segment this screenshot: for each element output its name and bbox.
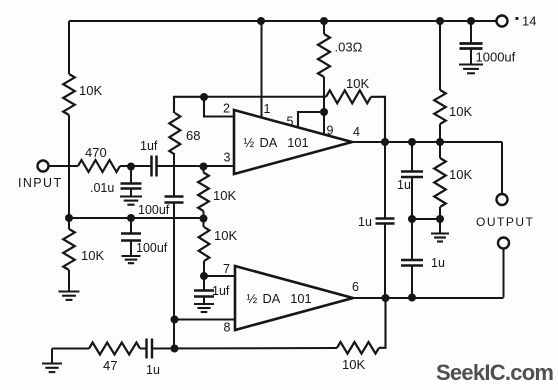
svg-text:100uf: 100uf: [138, 203, 170, 217]
wire 10K bottom to ground: [439, 219, 441, 233]
junction top rail / 1000uf branch: [467, 17, 475, 25]
wire pin 9: [323, 112, 325, 135]
junction output node C: [436, 138, 444, 146]
wire feedback to output node: [371, 97, 385, 142]
wire 1u upper lead: [411, 142, 413, 171]
ground below 10K left lower: [59, 290, 80, 292]
resistor 470: [78, 160, 120, 172]
resistor 10K upper left: [63, 74, 75, 115]
wire 1u lower to output2: [411, 266, 413, 298]
svg-text:10K: 10K: [449, 167, 472, 182]
capacitor 100uf upper: [165, 195, 184, 198]
junction bus 10K divider: [200, 215, 208, 223]
svg-text:1000uf: 1000uf: [476, 50, 516, 65]
svg-text:100uf: 100uf: [136, 241, 168, 255]
resistor 10K feedback op1: [326, 90, 371, 103]
svg-text:1uf: 1uf: [212, 284, 230, 298]
ground bottom left stub: [51, 349, 53, 364]
wire 1000uf to rail: [470, 21, 472, 43]
wire pin 7: [204, 275, 235, 277]
svg-text:470: 470: [85, 145, 107, 160]
svg-text:10K: 10K: [214, 228, 237, 243]
junction pin 8 node: [171, 316, 179, 324]
svg-text:.01u: .01u: [90, 181, 114, 195]
resistor 10K left lower: [63, 229, 75, 270]
svg-text:10K: 10K: [342, 357, 365, 372]
svg-text:4: 4: [353, 125, 360, 139]
junction pin 2 branch: [200, 93, 208, 101]
junction bus 100uf branch: [127, 214, 135, 222]
op-amp U2 half DA101: [235, 266, 353, 330]
junction 1u caps midpoint: [408, 215, 416, 223]
wire left rail middle: [68, 115, 70, 218]
wire input to 470: [48, 165, 78, 167]
wire 1uf bypass to ground: [203, 297, 205, 304]
svg-text:68: 68: [186, 128, 200, 143]
wire 1u cap to feedback 10K: [152, 347, 337, 350]
svg-text:1uf: 1uf: [140, 139, 158, 153]
ground below right 10K: [431, 232, 449, 234]
junction op2 out / feedback: [382, 294, 390, 302]
svg-text:.03Ω: .03Ω: [335, 40, 363, 55]
svg-text:1u: 1u: [358, 215, 372, 229]
svg-text:½ DA 101: ½ DA 101: [244, 135, 309, 150]
svg-text:10K: 10K: [213, 188, 236, 203]
op-amp U1 half DA101: [234, 110, 352, 174]
svg-text:INPUT: INPUT: [18, 176, 63, 190]
wire 470 to cap: [120, 165, 151, 167]
svg-text:47: 47: [103, 358, 117, 373]
ground below 100uf lower: [122, 255, 141, 257]
junction output node A: [381, 138, 389, 146]
junction right 10K bottom: [436, 215, 444, 223]
junction top rail / pin1 line: [257, 17, 265, 25]
junction input node: [127, 163, 135, 171]
wire middle rail down: [173, 203, 175, 349]
svg-text:1u: 1u: [146, 363, 160, 377]
wire 68 branch top corner: [174, 97, 204, 113]
wire .03 ohm lower lead: [323, 77, 325, 112]
terminal INPUT: [38, 161, 49, 172]
svg-text:7: 7: [223, 262, 230, 276]
wire right 10K to node: [439, 124, 441, 142]
wire 10K left lower leads: [68, 218, 70, 229]
wire 10K divider upper leads: [203, 166, 205, 173]
junction top rail / 0.3-ohm branch: [320, 17, 328, 25]
wire 1u lower lead: [411, 219, 413, 260]
svg-text:1u: 1u: [431, 256, 445, 270]
svg-text:OUTPUT: OUTPUT: [476, 215, 534, 229]
terminal +14: [497, 16, 508, 27]
wire from lower OUTPUT terminal: [503, 248, 505, 297]
resistor 10K divider lower: [199, 227, 210, 261]
svg-text:10K: 10K: [81, 248, 104, 263]
wire top supply rail: [69, 20, 497, 22]
capacitor 100uf lower stub: [130, 218, 132, 233]
capacitor 1uf series input: [150, 156, 153, 177]
capacitor .01u: [121, 182, 142, 185]
svg-text:3: 3: [224, 151, 231, 165]
resistor 47: [89, 343, 140, 355]
capacitor 1u middle: [376, 217, 395, 220]
svg-text:10K: 10K: [79, 83, 102, 98]
junction pin 7 node: [200, 272, 208, 280]
wire 100uf lower to ground: [130, 241, 132, 256]
capacitor 1u lower right: [401, 259, 423, 262]
svg-text:1: 1: [264, 102, 271, 116]
capacitor .01u to ground stub: [130, 166, 132, 183]
wire pin 1 line: [261, 21, 263, 118]
resistor 10K right upper: [434, 90, 446, 124]
svg-text:10K: 10K: [346, 76, 369, 91]
resistor 10K divider upper: [198, 173, 209, 212]
terminal OUTPUT lower: [498, 238, 509, 249]
wire node 219 horizontal: [412, 218, 440, 220]
wire 1u upper to node: [411, 177, 413, 219]
wire op1 output: [352, 141, 502, 143]
resistor 68: [169, 113, 180, 155]
ground bottom left: [42, 362, 62, 364]
wire pin 2 stub: [204, 97, 234, 117]
svg-text:1u: 1u: [397, 178, 411, 192]
label +14: [516, 17, 519, 20]
wire 47 to 1u cap: [140, 348, 147, 350]
wire op2 output: [353, 297, 504, 299]
wire 1u mid upper lead: [384, 142, 386, 218]
wire left rail upper: [68, 21, 70, 74]
ground below 1000uf: [459, 63, 483, 65]
junction bus left rail: [65, 214, 73, 222]
wire cap to pin 3: [157, 165, 235, 167]
wire pin2 node to feedback node: [204, 96, 326, 98]
junction top rail / right 10K branch: [436, 17, 444, 25]
capacitor 1uf bypass: [194, 289, 214, 292]
junction pin5/pin9 node: [320, 108, 328, 116]
svg-text:SeekIC.com: SeekIC.com: [436, 360, 553, 385]
wire .03 ohm upper lead: [323, 21, 325, 34]
terminal OUTPUT upper: [497, 194, 508, 205]
capacitor 100uf lower: [121, 232, 141, 235]
capacitor 1u series bottom: [145, 339, 147, 359]
capacitor 1uf pin7 stub: [203, 276, 205, 290]
junction op2 out / 1u cap: [408, 294, 416, 302]
wire 10K divider lower leads: [203, 218, 205, 227]
svg-text:10K: 10K: [449, 104, 472, 119]
junction output node B: [408, 138, 416, 146]
wire feedback 10K to op2 output: [379, 298, 386, 348]
capacitor 1u upper right: [401, 170, 423, 173]
ground below .01u: [120, 195, 142, 197]
wire 1u mid lower lead: [384, 224, 386, 298]
resistor .03 ohm: [318, 34, 330, 77]
svg-text:8: 8: [224, 321, 231, 335]
svg-text:14: 14: [522, 14, 536, 29]
wire 68 to 100uf: [173, 155, 175, 197]
resistor 10K feedback op2: [337, 342, 379, 354]
resistor 10K right lower: [434, 158, 446, 207]
wire to upper OUTPUT terminal: [501, 142, 503, 194]
wire right 10K upper lead: [439, 21, 441, 90]
wire bus left: [69, 217, 204, 219]
svg-text:6: 6: [352, 280, 359, 294]
svg-text:½ DA 101: ½ DA 101: [247, 291, 312, 306]
junction bottom rail: [171, 345, 179, 353]
wire ground to 47: [52, 348, 89, 350]
svg-text:2: 2: [223, 102, 230, 116]
wire right 10K lower leads: [439, 142, 441, 158]
ground below 1uf bypass: [194, 303, 214, 305]
wire 1000uf to ground: [470, 49, 472, 65]
wire pin 5 staple: [298, 112, 324, 128]
junction at 10K divider top: [200, 163, 208, 171]
wire .01u to ground: [130, 189, 132, 197]
wire pin 8: [174, 319, 235, 321]
capacitor 1000uf: [460, 42, 483, 45]
